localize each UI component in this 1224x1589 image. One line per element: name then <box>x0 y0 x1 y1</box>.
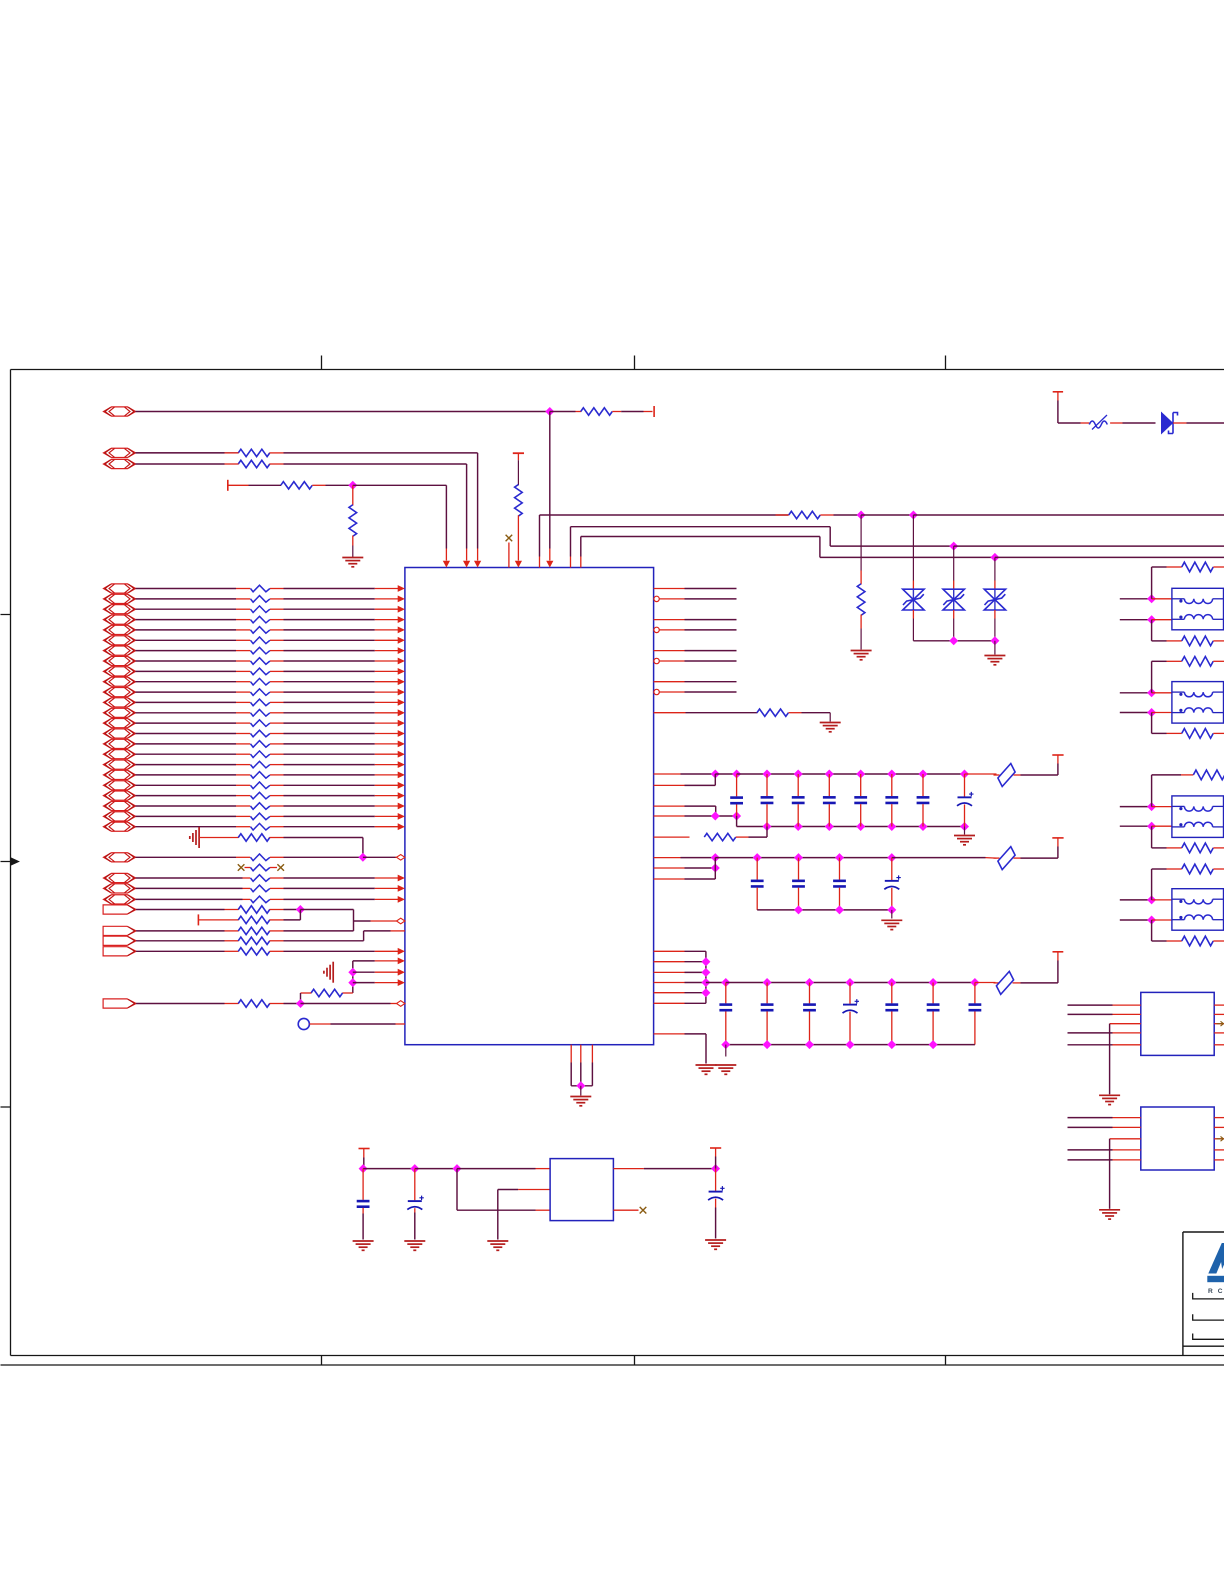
resistor RB6 <box>251 896 270 903</box>
IC right pin wire 588 <box>654 588 737 590</box>
port PA13 <box>104 708 136 717</box>
wire pin805 down <box>654 806 716 816</box>
wire net P1 <box>136 408 554 416</box>
capacitor C4 <box>828 774 830 796</box>
wire pins 950-1003 join <box>654 951 710 1003</box>
arrow marker U3 <box>1217 1136 1224 1141</box>
wire TR3 in1 <box>1120 803 1172 811</box>
wire xtal pin mid <box>498 1190 550 1240</box>
test point circle TP1 <box>298 1018 405 1029</box>
ferrite bead L3 <box>994 971 1021 994</box>
port PA9 <box>104 667 136 676</box>
resistor RA20 <box>251 782 270 789</box>
port PB3 <box>104 884 136 893</box>
power VCC T3 <box>513 453 524 485</box>
capacitor C20 <box>357 1169 370 1240</box>
port PA17 <box>104 750 136 759</box>
IC U3 body <box>1141 1107 1214 1170</box>
resistor RC7 <box>136 1000 405 1008</box>
wire PB1 to IC <box>284 854 405 862</box>
wire PA4 <box>136 616 405 623</box>
port PA15 <box>104 729 136 738</box>
wire bus A right <box>834 511 1224 519</box>
resistor R10 pin837 <box>654 827 767 841</box>
wire PA12 <box>136 699 405 706</box>
wire PA24 <box>136 823 405 830</box>
power VCC T10 <box>710 1148 721 1169</box>
resistor RA23 <box>251 813 270 820</box>
power VCC T4 <box>1053 392 1081 423</box>
no-connect pin X1 <box>506 535 513 568</box>
wire xtal pin2 path <box>457 1169 550 1211</box>
resistor R6 <box>515 485 523 568</box>
crystal oscillator Y1 <box>550 1159 613 1221</box>
port PA1 <box>104 584 136 593</box>
tvs diode D1 <box>903 515 924 641</box>
resistor RA3 <box>251 606 270 613</box>
wire TR4 in2 <box>1120 916 1172 924</box>
ground G10 <box>570 1096 591 1098</box>
resistor RB5 <box>251 885 270 892</box>
left border zone arrow <box>1 858 19 864</box>
resistor RA22 <box>251 803 270 810</box>
wire PA5 <box>136 627 405 634</box>
capacitor C11 <box>839 858 841 880</box>
resistor RC4 <box>136 931 364 945</box>
capacitor C6 <box>891 774 893 796</box>
port PA19 <box>104 770 136 779</box>
resistor RT4a <box>1152 864 1224 900</box>
wire PA14 <box>136 720 405 727</box>
wire PA15 <box>136 730 405 737</box>
wire PC1 node <box>284 906 354 931</box>
port PA5 <box>104 625 136 634</box>
wire PA6 <box>136 637 405 644</box>
IC right pin bubble 660 <box>654 658 737 663</box>
capacitor C2 <box>766 774 768 796</box>
port PA6 <box>104 636 136 645</box>
wire RB1 to node <box>284 838 363 858</box>
port P2 <box>104 448 136 457</box>
ground G7 <box>954 827 975 845</box>
wire bus A <box>540 515 789 568</box>
terminal stub T2 <box>227 480 229 491</box>
transformer TR3 <box>1172 796 1224 838</box>
wire PA3 <box>136 606 405 613</box>
no-connect pin X2 <box>613 1207 646 1214</box>
ground G15 <box>1099 1094 1120 1096</box>
resistor RT2a <box>1152 657 1224 693</box>
wire PA20 <box>136 782 405 789</box>
resistor RC3 <box>136 927 353 934</box>
port PB1 <box>104 853 136 862</box>
port PA20 <box>104 781 136 790</box>
wire PA19 <box>136 772 405 779</box>
wire PB4 <box>136 896 405 903</box>
capacitor C22 pol <box>708 1169 725 1239</box>
resistor RC6 <box>301 989 353 1003</box>
IC right pin bubble 598 <box>654 596 737 601</box>
ground G1 <box>342 546 363 567</box>
node wires 960-982 <box>349 958 405 994</box>
power VCC T9 <box>359 1149 370 1169</box>
wire TR1 in1 <box>1120 595 1172 603</box>
resistor RA7 <box>251 647 270 654</box>
capacitor C3 <box>797 774 799 796</box>
port PA12 <box>104 698 136 707</box>
resistor RA1 <box>251 585 270 592</box>
resistor RT3a <box>1152 770 1224 806</box>
resistor RA14 <box>251 720 270 727</box>
resistor R3 <box>225 460 284 467</box>
transformer TR4 <box>1172 889 1224 931</box>
ground G12 <box>404 1240 425 1242</box>
port PA10 <box>104 677 136 686</box>
wire PB2 <box>136 875 405 882</box>
wire P1 to IC pin <box>546 412 553 568</box>
resistor R5 <box>349 485 357 545</box>
resistor RA2 <box>251 596 270 603</box>
resistor RA16 <box>251 741 270 748</box>
wire U2 left pins <box>1068 1005 1141 1045</box>
transformer TR1 <box>1172 588 1224 630</box>
resistor RA9 <box>251 668 270 675</box>
tvs diode D2 <box>943 546 964 641</box>
resistor RA12 <box>251 699 270 706</box>
resistor RB1 <box>199 834 283 841</box>
resistor RT3b <box>1152 826 1224 853</box>
resistor R9 pin712 <box>654 709 831 722</box>
ground G14 <box>705 1239 726 1241</box>
title block frame <box>1183 1232 1224 1356</box>
port P3 <box>104 459 136 468</box>
wire TR4 in1 <box>1120 896 1172 904</box>
IC right pin wire 619 <box>654 619 737 621</box>
port PA23 <box>104 812 136 821</box>
resistor R7 <box>776 511 834 518</box>
terminal stub T1 <box>653 406 655 417</box>
ground G5 side <box>332 962 334 983</box>
ground G13 <box>487 1240 508 1242</box>
wire to IC pin 920 <box>354 918 405 924</box>
port PC1 flag <box>103 905 136 914</box>
capacitor C8 pol <box>964 774 966 797</box>
capacitor C1 <box>736 774 738 796</box>
port PA14 <box>104 719 136 728</box>
capacitor C16 pol <box>849 983 851 1004</box>
title field rules <box>1193 1293 1224 1339</box>
resistor RB4 <box>251 875 270 882</box>
wire U2 gnd pin <box>1110 1024 1141 1095</box>
port PA3 <box>104 605 136 614</box>
resistor RC1 <box>136 906 283 913</box>
ground G2 <box>851 650 872 652</box>
resistor R8 <box>857 515 865 650</box>
wire xtal rail <box>359 1165 550 1173</box>
resistor RB2 <box>136 854 284 861</box>
ferrite bead L2 <box>994 847 1021 870</box>
power VCC T6 <box>1021 755 1064 775</box>
wire PA1 <box>136 585 405 592</box>
port PA4 <box>104 615 136 624</box>
resistor RT4b <box>1152 920 1224 946</box>
capacitor C10 <box>798 858 800 880</box>
capacitor C18 <box>932 983 934 1004</box>
wire PA9 <box>136 668 405 675</box>
port PC2 flag <box>103 926 136 935</box>
wire PA11 <box>136 689 405 696</box>
port PC4 flag <box>103 947 136 956</box>
IC right pin bubble 629 <box>654 627 737 632</box>
svg-text:RC: RC <box>1208 1288 1224 1295</box>
wire PA22 <box>136 803 405 810</box>
resistor RA11 <box>251 689 270 696</box>
wire PA17 <box>136 751 405 758</box>
power VCC T7 <box>1021 838 1064 858</box>
company logo <box>1207 1243 1224 1282</box>
resistor RT2b <box>1152 713 1224 739</box>
resistor RA15 <box>251 730 270 737</box>
wire PA7 <box>136 647 405 654</box>
ground G11 <box>353 1240 374 1242</box>
wire TR2 in2 <box>1120 709 1172 717</box>
resistor RT1a <box>1152 562 1224 599</box>
ground G3 <box>984 655 1005 657</box>
port PC3 flag <box>103 936 136 945</box>
main IC U1 body <box>405 568 654 1045</box>
capacitor C5 <box>860 774 862 796</box>
wire pin1033 to gnd <box>654 1034 717 1074</box>
port PA18 <box>104 760 136 769</box>
wire R4 to IC <box>326 482 451 568</box>
ground G6 <box>820 722 841 724</box>
wire TR2 in1 <box>1120 689 1172 697</box>
port PB2 <box>104 873 136 882</box>
wire bank3 bottom bus <box>722 1041 975 1057</box>
port PB4 <box>104 895 136 904</box>
wire PA23 <box>136 813 405 820</box>
ground G8 <box>881 919 902 921</box>
no-connect resistor RB3 <box>238 864 284 871</box>
resistor R1 <box>550 408 653 415</box>
resistor RA21 <box>251 792 270 799</box>
wire U3 gnd pin <box>1110 1139 1141 1209</box>
wire PA10 <box>136 678 405 685</box>
wire PC3 to IC 930 <box>364 930 405 932</box>
wire U3 right pins <box>1214 1118 1224 1160</box>
transformer TR2 <box>1172 682 1224 724</box>
resistor RC2 <box>198 910 300 924</box>
resistor RT1b <box>1152 620 1224 646</box>
capacitor C21 pol <box>407 1169 424 1240</box>
wire IC bottom pins <box>571 1045 592 1096</box>
fuse F1 <box>1081 415 1123 430</box>
wire PA21 <box>136 792 405 799</box>
resistor RA10 <box>251 678 270 685</box>
wire pin815 bus <box>654 812 969 830</box>
wire TR1 in2 <box>1120 616 1172 624</box>
resistor RA6 <box>251 637 270 644</box>
port P1 <box>104 407 136 416</box>
capacitor C9 <box>756 858 758 880</box>
sheet border frame <box>1 356 1224 1366</box>
wire bus C <box>581 537 1224 568</box>
wire PB3 <box>136 885 405 892</box>
resistor RA5 <box>251 627 270 634</box>
wire pin867 <box>654 864 720 872</box>
wire bank2 bottom bus <box>757 906 895 918</box>
wire tvs bottom bus <box>913 637 998 655</box>
ground G16 <box>1099 1209 1120 1211</box>
port PA16 <box>104 739 136 748</box>
wire PA8 <box>136 658 405 665</box>
wire PA18 <box>136 761 405 768</box>
resistor RA4 <box>251 616 270 623</box>
wire PA2 <box>136 596 405 603</box>
wire U3 left pins <box>1068 1118 1141 1160</box>
wire bus B <box>571 527 1224 568</box>
capacitor C15 <box>809 983 811 1004</box>
wire TR3 in2 <box>1120 822 1172 830</box>
wire bank3 top bus <box>706 979 996 987</box>
tvs diode D3 <box>984 557 1005 640</box>
port PA11 <box>104 688 136 697</box>
terminal stub T5 <box>197 914 199 925</box>
capacitor C17 <box>891 983 893 1004</box>
capacitor C12 pol <box>891 858 893 880</box>
ferrite bead L1 <box>994 764 1021 787</box>
wire pin783 up <box>654 774 716 785</box>
wire xtal out <box>613 1165 719 1173</box>
resistor RA8 <box>251 658 270 665</box>
capacitor C14 <box>766 983 768 1004</box>
wire PA13 <box>136 709 405 716</box>
capacitor C13 <box>725 983 727 1004</box>
schottky diode D4 <box>1123 413 1187 434</box>
wire bank2 top bus <box>654 854 997 862</box>
wire VCC net <box>1187 422 1224 424</box>
IC right pin bubble 691 <box>654 689 737 694</box>
port PA22 <box>104 801 136 810</box>
wire P2 to IC <box>136 453 482 568</box>
ground G9 <box>715 1064 736 1066</box>
port PA24 <box>104 822 136 831</box>
wire bank1 top bus <box>654 770 997 778</box>
resistor RA19 <box>251 772 270 779</box>
IC U2 body <box>1141 992 1214 1055</box>
ground G4 side <box>198 827 200 848</box>
resistor RA17 <box>251 751 270 758</box>
IC right pin wire 650 <box>654 650 737 652</box>
arrow marker U2 <box>1217 1021 1224 1026</box>
wire pin878 <box>654 858 716 879</box>
resistor RA13 <box>251 710 270 717</box>
power VCC T8 <box>1021 952 1064 983</box>
port PA7 <box>104 646 136 655</box>
port PA21 <box>104 791 136 800</box>
wire U2 right pins <box>1214 1005 1224 1045</box>
port PC5 flag <box>103 999 136 1008</box>
port PA2 <box>104 594 136 603</box>
port PA8 <box>104 656 136 665</box>
capacitor C7 <box>922 774 924 796</box>
wire PA16 <box>136 741 405 748</box>
resistor R4 <box>228 482 326 489</box>
resistor RA24 <box>251 823 270 830</box>
wire P3 to IC <box>136 464 471 568</box>
capacitor C19 <box>974 983 976 1004</box>
resistor RC5 <box>136 948 405 955</box>
resistor RA18 <box>251 761 270 768</box>
IC right pin wire 681 <box>654 681 737 683</box>
resistor R2 <box>136 449 284 456</box>
